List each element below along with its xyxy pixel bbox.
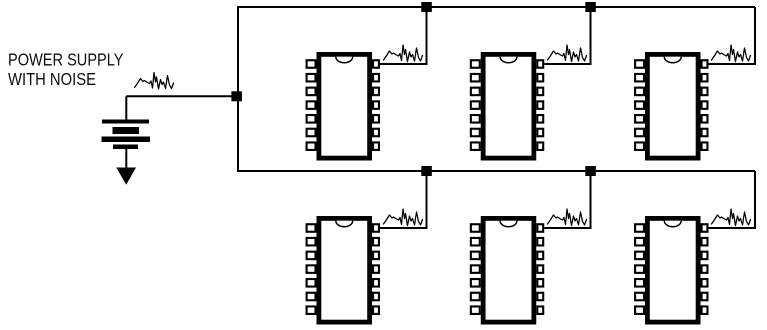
wire battery bottom lead: [125, 149, 127, 168]
wire left vertical bus: [237, 6, 239, 172]
wire top rail: [237, 6, 755, 8]
node top rail 1: [421, 2, 432, 12]
wire second rail: [237, 170, 755, 172]
noise symbol at IC U3: [712, 45, 751, 62]
wire IC U3 supply drop: [709, 7, 756, 64]
wire IC U2 supply drop: [544, 7, 590, 64]
noise symbol at IC U1: [384, 45, 423, 62]
IC U6: [635, 216, 707, 325]
IC U4: [307, 216, 379, 325]
node top rail 2: [585, 2, 596, 12]
wire battery to node A: [126, 95, 236, 97]
node second rail 2: [585, 166, 596, 176]
battery B1 (power supply with noise): [102, 120, 151, 150]
svg-text:POWER SUPPLY: POWER SUPPLY: [8, 49, 124, 69]
noise symbol at IC U2: [548, 45, 587, 62]
wire IC U1 supply drop: [380, 7, 427, 64]
noise symbol at IC U5: [548, 209, 587, 226]
IC U2: [471, 52, 543, 161]
noise symbol at IC U4: [384, 209, 423, 226]
noise symbol at IC U6: [712, 209, 751, 226]
noise symbol at power supply: [135, 73, 174, 90]
IC U1: [307, 52, 379, 161]
node A (battery junction): [231, 91, 242, 101]
wire IC U6 supply drop: [709, 171, 756, 228]
wire IC U4 supply drop: [380, 171, 427, 228]
wire battery top lead: [125, 96, 127, 120]
node second rail 1: [421, 166, 432, 176]
IC U3: [635, 52, 707, 161]
svg-text:WITH NOISE: WITH NOISE: [8, 69, 96, 89]
IC U5: [471, 216, 543, 325]
wire IC U5 supply drop: [544, 171, 590, 228]
ground arrow: [116, 168, 136, 185]
